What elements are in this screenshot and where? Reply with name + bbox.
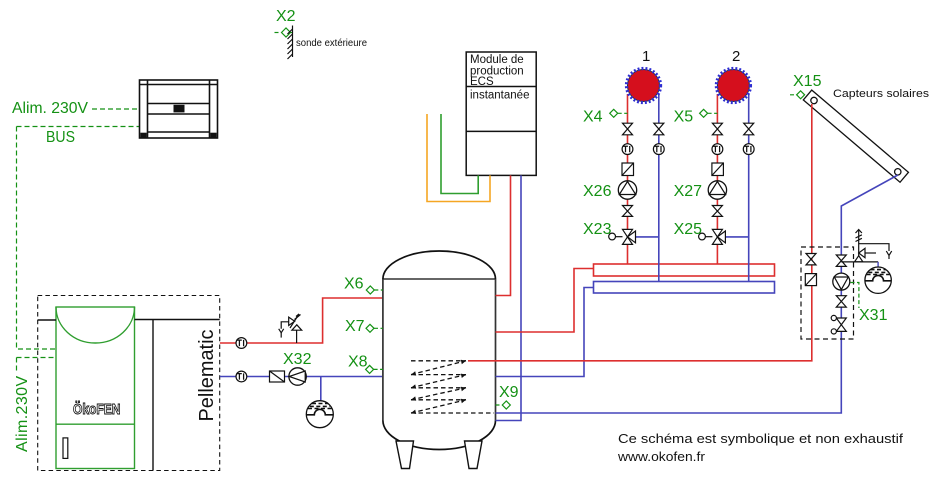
svg-text:Alim. 230V: Alim. 230V: [12, 100, 88, 117]
svg-text:1: 1: [642, 48, 650, 65]
ECS primary return (blue): [496, 175, 522, 420]
svg-text:X4: X4: [583, 109, 603, 126]
boiler door handle: [63, 438, 68, 459]
svg-text:X25: X25: [674, 221, 703, 238]
solar return pipe blue: [496, 175, 898, 413]
boiler dashed enclosure: [38, 296, 220, 471]
ECS primary supply (red): [496, 175, 511, 295]
blue return pipe tank->boiler: [220, 376, 382, 378]
expansion vessel solar: [865, 267, 891, 293]
svg-text:X26: X26: [583, 183, 612, 200]
radiator 1: [628, 70, 660, 102]
wire red supply circuit 1: [627, 94, 629, 264]
svg-text:Module de: Module de: [470, 54, 524, 66]
wire blue return circuit 2: [725, 94, 748, 282]
filter solar: [805, 274, 816, 286]
svg-text:Capteurs solaires: Capteurs solaires: [833, 88, 930, 100]
svg-text:X15: X15: [793, 73, 822, 90]
svg-text:X2: X2: [276, 8, 296, 25]
safety valve boiler: [279, 314, 302, 343]
svg-text:Ce schéma est symbolique et no: Ce schéma est symbolique et non exhausti…: [618, 431, 903, 446]
svg-text:X5: X5: [674, 109, 694, 126]
wire BUS (green dashed): [17, 109, 140, 372]
red supply pipe boiler->tank: [220, 298, 382, 343]
buffer tank: [383, 251, 496, 450]
controller unit: [140, 80, 218, 138]
pump X32: [289, 368, 306, 385]
filter circuit 1: [622, 163, 634, 176]
return manifold: [594, 282, 775, 294]
check valve solar: [831, 315, 846, 334]
ECS hot water wire (orange): [427, 114, 490, 202]
svg-text:X6: X6: [344, 276, 364, 293]
solar coil in tank: [411, 361, 494, 413]
pump X27: [708, 181, 726, 199]
svg-text:BUS: BUS: [46, 129, 75, 146]
svg-text:Pellematic: Pellematic: [196, 330, 218, 422]
mixing valve X23: [609, 229, 636, 244]
thermometer TI supply: [236, 338, 247, 349]
svg-text:www.okofen.fr: www.okofen.fr: [617, 449, 706, 464]
ECS cold water wire (green): [441, 114, 478, 194]
tank legs: [396, 441, 482, 469]
svg-text:X23: X23: [583, 221, 612, 238]
svg-text:X7: X7: [345, 318, 365, 335]
coil flow arrows: [411, 360, 466, 414]
svg-text:Alim.230V: Alim.230V: [14, 375, 31, 452]
wire red supply circuit 2: [716, 94, 718, 264]
solar collector panel: [803, 90, 908, 182]
thermometer TI return: [236, 371, 247, 382]
svg-text:ÖkoFEN: ÖkoFEN: [73, 401, 121, 418]
svg-text:ECS: ECS: [470, 76, 494, 88]
valve solar blue bottom: [836, 296, 846, 307]
valve solar red: [806, 254, 816, 265]
pump solar: [833, 273, 850, 290]
svg-text:2: 2: [732, 48, 740, 65]
svg-text:X8: X8: [348, 354, 368, 371]
thermometer TI circuit2 supply: [712, 144, 723, 155]
valve solar blue top: [836, 255, 846, 266]
manifold return blue: [496, 288, 594, 377]
filter X32: [270, 371, 285, 382]
sonde exterieure wall: [288, 26, 293, 60]
boiler body (green): [56, 307, 135, 469]
filter circuit 2: [712, 163, 724, 176]
valve below pump 1: [623, 206, 633, 217]
module ECS box: [466, 52, 536, 175]
thermometer TI circuit1 supply: [622, 144, 633, 155]
svg-text:X32: X32: [283, 351, 312, 368]
pump X26: [618, 181, 636, 199]
thermometer TI circuit2 return: [743, 144, 754, 155]
valve supply 2: [712, 123, 722, 135]
solar safety group: [841, 230, 891, 263]
hopper divider: [38, 320, 220, 471]
svg-text:X31: X31: [859, 307, 888, 324]
svg-text:sonde extérieure: sonde extérieure: [296, 38, 367, 49]
svg-text:X27: X27: [674, 183, 703, 200]
svg-text:instantanée: instantanée: [470, 90, 529, 102]
expansion vessel boiler: [320, 377, 322, 403]
solar supply pipe red: [468, 104, 812, 361]
thermometer TI circuit1 return: [653, 144, 664, 155]
supply manifold: [594, 264, 775, 276]
valve return 2: [744, 123, 754, 135]
mixing valve X25: [699, 229, 726, 244]
valve return 1: [654, 123, 664, 135]
solar station dashed box: [801, 247, 854, 339]
X31 sensor wire: [851, 283, 859, 309]
manifold feed red: [496, 269, 594, 333]
valve below pump 2: [712, 206, 722, 217]
wire blue return circuit 1: [636, 94, 659, 282]
radiator 2: [717, 70, 749, 102]
svg-text:X9: X9: [499, 384, 519, 401]
valve supply 1: [623, 123, 633, 135]
